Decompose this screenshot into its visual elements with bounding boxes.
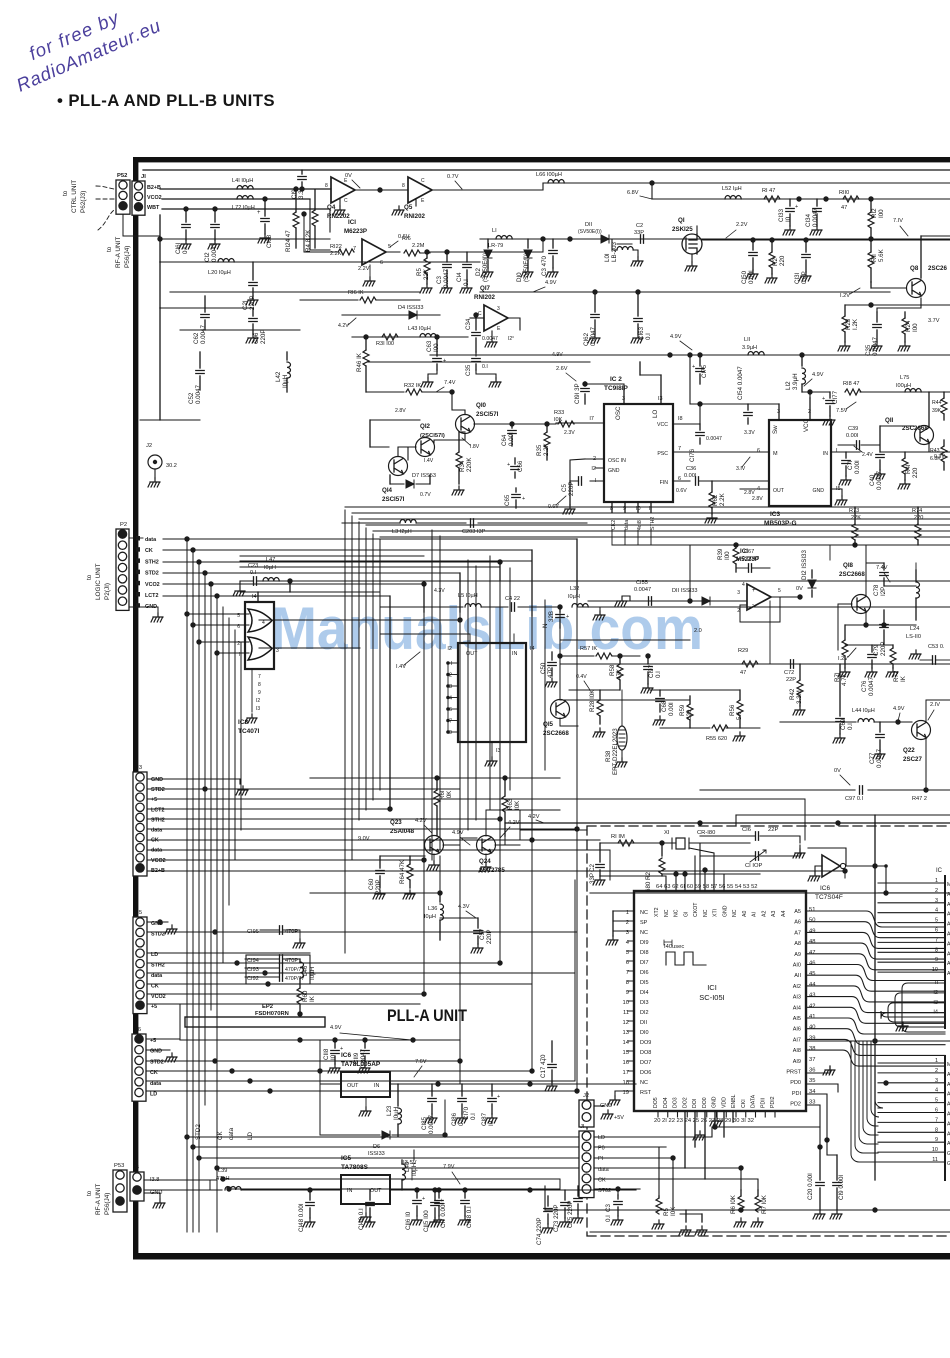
wire [633,250,638,257]
wire [752,567,770,569]
wire [860,391,950,393]
wire [799,664,801,680]
svg-text:R60: R60 [302,990,309,1002]
svg-text:A0: A0 [742,911,748,917]
svg-text:22K: 22K [423,268,430,280]
svg-text:ERT-D22EL2023: ERT-D22EL2023 [612,728,619,775]
junction [449,389,454,394]
svg-text:(2SCI57I): (2SCI57I) [420,433,445,439]
wire [943,392,945,398]
svg-text:7.IV: 7.IV [893,218,903,224]
junction [615,1186,620,1191]
wire [186,539,188,1232]
IC2 VCC wire up [699,404,701,424]
wire [711,508,713,514]
junction [823,196,828,201]
svg-text:2SAI048: 2SAI048 [390,828,415,835]
wire [892,645,894,648]
svg-text:0.0047: 0.0047 [868,677,875,696]
capacitor C2 33P [641,235,644,243]
wire [436,806,438,836]
wire [147,993,424,995]
junction [868,196,873,201]
svg-text:R62: R62 [712,494,719,506]
wire [819,1147,821,1180]
wire [373,530,432,532]
svg-text:LII: LII [744,337,751,343]
svg-text:220: 220 [779,255,786,266]
wire [520,829,587,831]
wire [943,440,945,446]
svg-text:L46: L46 [302,965,309,976]
wire pin [878,1141,945,1143]
wire to C16 [808,848,846,866]
wire [871,645,873,652]
svg-text:ICI: ICI [348,219,356,226]
svg-text:CI70: CI70 [463,1106,470,1120]
wire [309,1190,311,1200]
svg-text:0.I: 0.I [655,671,662,678]
svg-text:I3: I3 [658,396,663,402]
svg-text:4.9V: 4.9V [545,280,557,286]
wire [584,382,586,386]
svg-text:NC: NC [674,909,680,917]
wire [439,920,441,940]
wire [228,618,230,905]
wire [612,544,690,546]
wire [369,1190,371,1200]
wire [844,625,846,640]
junction [529,1068,534,1073]
svg-text:I2P: I2P [880,587,887,596]
svg-text:RNI202: RNI202 [404,213,426,220]
ground [873,470,885,479]
svg-text:0V: 0V [345,173,352,179]
svg-text:R64 47K: R64 47K [399,859,406,884]
svg-text:CI6I: CI6I [175,242,182,254]
IC1 PD0 PD1 PD2 wires [806,1084,838,1092]
svg-text:DI0: DI0 [640,1030,649,1036]
wire [436,364,438,370]
svg-text:LCT2: LCT2 [145,593,158,599]
transistor Q8 [907,279,926,298]
ground [685,262,697,271]
ground [833,734,845,743]
wire [547,1196,549,1206]
svg-text:46: 46 [809,961,815,967]
svg-text:R59: R59 [679,704,686,716]
wire [660,727,710,729]
wire [303,214,305,252]
IC1 left pin stubs [628,911,634,1091]
svg-text:2.2V: 2.2V [358,266,370,272]
svg-text:C203 I3P: C203 I3P [462,529,486,535]
junction [234,960,239,965]
wire [513,634,515,643]
wire emitter [877,298,921,312]
wire [185,209,187,222]
wire [588,606,950,608]
wire [423,584,425,994]
svg-text:0.0047: 0.0047 [195,385,202,404]
wire [240,566,500,568]
wire [599,690,601,700]
right IC upper loop pins 11-14 [881,983,945,1032]
IC1 bottom pin stubs [658,1111,775,1117]
connector J3 [133,772,147,876]
wire [861,444,880,446]
svg-text:2.IV: 2.IV [930,702,940,708]
svg-text:0.I: 0.I [182,247,189,254]
ground [593,876,605,885]
wire [147,870,845,872]
svg-text:P56(J4): P56(J4) [104,1193,111,1215]
svg-text:I3: I3 [256,706,260,712]
svg-text:IC8: IC8 [238,719,249,726]
svg-text:R28 I0K: R28 I0K [589,689,596,712]
svg-text:0.I: 0.I [847,723,854,730]
wire bundle lower [851,1041,883,1162]
wire [179,1004,181,1039]
svg-text:R58: R58 [609,664,616,676]
svg-text:7.6V: 7.6V [415,1059,427,1065]
junction [473,312,478,317]
svg-text:2.4V: 2.4V [862,452,873,458]
junction [803,237,808,242]
svg-text:MB503P-G: MB503P-G [764,520,797,527]
wire [650,689,720,691]
wire [870,282,872,288]
junction [436,1187,441,1192]
svg-text:TA78L005AP: TA78L005AP [341,1061,381,1068]
svg-text:XT2: XT2 [654,907,660,917]
svg-text:ENBL: ENBL [731,1094,737,1108]
wire [574,880,576,1081]
svg-text:8: 8 [325,183,328,189]
wire [429,475,431,484]
junction [157,919,162,924]
svg-text:0.7V: 0.7V [420,492,431,498]
wire [438,1190,440,1198]
svg-text:0.0047: 0.0047 [200,325,207,344]
wire [146,1080,575,1082]
wire [546,448,548,460]
wire [584,394,586,404]
svg-text:A9: A9 [794,952,801,958]
wire [439,856,441,893]
wire [185,230,187,240]
ground [541,1224,553,1233]
connector J4 [130,1172,144,1201]
wire [805,240,807,252]
junction [190,622,195,627]
ground [428,1218,440,1227]
svg-text:PDI: PDI [792,1091,802,1097]
wire [659,1147,666,1196]
wire [436,778,438,790]
wire [345,506,950,508]
junction [317,1068,322,1073]
svg-text:0.0047: 0.0047 [876,471,883,490]
wire [234,630,236,860]
wire [660,375,662,404]
wire [309,1208,311,1218]
wire [416,483,430,485]
wire [590,892,950,894]
wire [515,500,517,508]
wire [314,226,316,248]
svg-text:I7: I7 [589,416,594,422]
svg-text:CI55: CI55 [636,580,648,586]
svg-text:3.IV: 3.IV [736,466,746,472]
wire [252,308,254,316]
svg-text:PDI2: PDI2 [770,1096,776,1108]
svg-text:R7 I0K: R7 I0K [761,1194,768,1214]
wire [509,568,511,790]
wire [595,467,604,469]
svg-text:C2I: C2I [242,300,249,310]
wire [542,239,544,252]
wire [760,451,769,453]
wire [838,603,852,605]
svg-text:GND: GND [608,468,620,474]
svg-text:0.8P: 0.8P [801,271,808,284]
junction [557,604,562,609]
svg-text:DO5: DO5 [653,1097,659,1108]
wire [146,1049,170,1051]
IC1-a ground [369,265,371,276]
svg-text:CI68: CI68 [266,234,273,248]
wire [163,595,390,597]
svg-text:R4I: R4I [905,464,912,474]
svg-text:IC6: IC6 [820,885,831,892]
ground [303,1218,315,1227]
svg-text:CTRL UNIT: CTRL UNIT [71,180,78,213]
wire [475,364,477,370]
svg-text:CK: CK [151,838,159,844]
transistor Q14 [389,457,408,476]
wire [599,870,601,876]
wire [466,252,468,262]
ground [208,240,220,249]
svg-text:7.4V: 7.4V [444,380,456,386]
svg-text:4: 4 [935,1088,938,1094]
junction [457,1058,462,1063]
wire [147,972,575,974]
svg-text:QI5: QI5 [543,721,554,728]
transistor Q10 [456,415,475,434]
junction [196,639,201,644]
wire [619,680,621,690]
svg-text:220P: 220P [260,330,267,344]
wire [662,873,724,875]
svg-text:DI9: DI9 [640,940,649,946]
junction [895,719,900,724]
wire [504,836,506,845]
svg-text:6: 6 [626,960,629,966]
connector P53 [113,1170,127,1212]
frame bottom border [133,1253,950,1260]
ground [148,478,160,487]
junction [881,622,886,627]
svg-text:C74 220P: C74 220P [536,1217,543,1245]
svg-text:II: II [935,980,939,986]
ground [810,226,822,235]
svg-text:I40usec: I40usec [664,944,684,950]
svg-text:45: 45 [809,971,815,977]
wire [699,438,701,444]
junction [697,401,702,406]
wire [661,843,663,856]
svg-text:CI85: CI85 [421,1116,428,1130]
wire [559,1179,561,1190]
wire [519,810,521,840]
svg-text:CI77: CI77 [832,390,839,404]
svg-text:CI62: CI62 [583,332,590,346]
wire [344,510,346,953]
wire [413,1150,415,1160]
wire [299,262,301,300]
connector J6 [132,1034,146,1101]
wire [163,583,424,585]
svg-text:VCO2: VCO2 [151,994,166,1000]
wire [829,392,831,398]
wire [434,1208,436,1218]
svg-text:C3: C3 [605,1204,612,1212]
wire [334,1040,336,1048]
svg-text:C60: C60 [368,878,375,890]
junction [212,929,217,934]
svg-text:SP: SP [640,920,648,926]
ground [373,890,385,899]
junction [697,820,702,825]
svg-text:+: + [566,614,569,620]
junction [527,1081,532,1086]
wire [199,376,201,390]
svg-text:0.I: 0.I [645,333,652,340]
wire [739,716,741,728]
wire [289,581,291,592]
svg-text:R46 IK: R46 IK [356,352,363,372]
ground [392,206,404,215]
wire [652,198,950,200]
svg-text:0.I: 0.I [605,1215,612,1222]
svg-text:LR-79: LR-79 [488,243,503,249]
svg-text:C35: C35 [865,344,872,356]
wire [585,458,604,460]
wire [123,235,160,237]
wire [416,1206,418,1216]
junction [527,1187,532,1192]
junction [247,1078,252,1083]
wire [352,512,950,514]
wire [943,414,945,420]
wire [699,355,701,366]
svg-text:0.00I: 0.00I [854,460,861,474]
ground [165,1053,177,1062]
wire [372,534,374,800]
svg-text:220K: 220K [466,457,473,472]
svg-text:RI2: RI2 [871,208,878,218]
wire [240,555,345,557]
crystal X1 [676,838,685,849]
diode D11 [601,235,609,243]
wire [487,239,489,248]
ground [328,1064,340,1073]
wire [618,1189,640,1195]
IC6 out wire [320,1040,341,1084]
junction [184,536,189,541]
wire [389,475,391,484]
wire [830,544,950,546]
svg-text:6: 6 [935,1108,938,1114]
svg-text:N: N [542,624,549,628]
wire [144,1192,160,1194]
inductor L52 [725,196,741,200]
wire [466,270,468,284]
wire [868,789,950,791]
connector J1 [579,1131,594,1198]
junction [872,863,877,868]
svg-text:C68: C68 [661,700,668,712]
svg-text:9: 9 [626,990,629,996]
wire [477,936,479,944]
wire [245,976,279,978]
svg-text:LD: LD [247,1132,254,1140]
wire [373,530,950,532]
inductor L36 [440,904,444,920]
J1 wires right [594,1127,712,1137]
resistor R110 47 [843,196,859,202]
svg-text:GI: GI [683,912,689,917]
svg-text:C75 220P: C75 220P [567,1200,574,1228]
svg-text:D7 ISS53: D7 ISS53 [412,473,436,479]
svg-text:I0µH: I0µH [424,914,436,920]
op-amp Q4 RN2202 [331,177,355,203]
svg-text:2.2K: 2.2K [719,492,726,506]
connector P2 [116,529,129,610]
svg-text:4.2V: 4.2V [415,818,427,824]
wire [199,352,201,368]
wire [380,855,425,857]
wire [481,606,508,608]
ground [909,650,921,659]
wire [390,1189,636,1191]
wire IC2 pin3 up [585,384,624,390]
junction [540,236,545,241]
svg-text:L0I: L0I [604,253,611,262]
svg-text:CR-I80: CR-I80 [697,830,715,836]
inductor L46 [300,962,304,978]
svg-text:I00: I00 [912,323,919,332]
svg-text:PLL-A UNIT: PLL-A UNIT [387,1007,467,1025]
ground [236,786,248,795]
junction [446,696,450,700]
ground [151,613,163,622]
svg-text:I0µH: I0µH [411,1163,418,1176]
wire [459,431,465,433]
svg-text:0.I: 0.I [470,1113,477,1120]
svg-text:GND: GND [722,905,728,917]
svg-text:L40: L40 [404,1161,411,1172]
wire [310,892,440,894]
wire [551,1070,553,1082]
ground [258,234,270,243]
wire [518,606,560,608]
capacitor C5 220P [579,477,582,485]
wire [299,1004,301,1014]
svg-text:R56: R56 [729,704,736,716]
